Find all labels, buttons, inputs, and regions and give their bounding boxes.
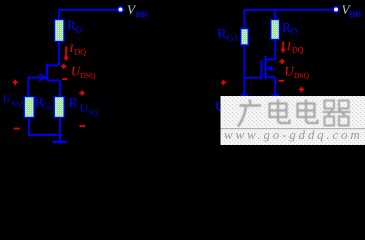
watermark box — [221, 96, 365, 145]
wire foot source right — [271, 94, 279, 96]
transistor Q1 channel bar — [46, 64, 48, 80]
svg-text:U: U — [71, 65, 81, 79]
svg-text:SQ: SQ — [88, 108, 98, 117]
svg-text:DD: DD — [350, 10, 362, 19]
label RD left — [67, 18, 83, 36]
label RG1 — [218, 26, 239, 44]
label RG2 — [35, 95, 52, 112]
svg-text:R: R — [69, 95, 78, 110]
svg-text:www.go-gddq.com: www.go-gddq.com — [224, 127, 363, 142]
transistor Q2 gate lead — [245, 77, 261, 79]
current arrow IDQ right — [281, 42, 286, 54]
node VDD right — [333, 7, 339, 13]
svg-text:DSQ: DSQ — [294, 71, 310, 80]
wire foot RG1 — [240, 94, 248, 96]
transistor Q2 gate bar — [261, 60, 263, 79]
minus UDSQ left — [62, 78, 67, 80]
transistor Q1 source lead — [47, 79, 60, 81]
wire: VDD to RD — [58, 10, 60, 20]
current arrow IDQ left — [64, 47, 69, 62]
svg-text:DSQ: DSQ — [81, 71, 97, 80]
minus USQ — [80, 125, 86, 127]
plus UGQ — [13, 80, 18, 85]
transistor Q1 gate arrow — [39, 74, 45, 81]
label IDQ right — [286, 41, 304, 55]
watermark rule — [221, 128, 365, 129]
label V_DD left — [127, 2, 147, 19]
wire: rail down to RG1 — [244, 10, 246, 29]
wire: source down right — [274, 77, 276, 94]
plus UDSQ right — [279, 59, 284, 64]
resistor RG2 — [24, 97, 34, 118]
wire: RG2 to bottom rail — [28, 118, 30, 136]
svg-text:DQ: DQ — [75, 48, 87, 57]
svg-text:DQ: DQ — [292, 46, 304, 55]
svg-text:D: D — [291, 28, 298, 38]
svg-text:U: U — [285, 65, 295, 79]
svg-text:R: R — [218, 26, 227, 41]
resistor R source — [54, 97, 64, 118]
wire: left top rail — [58, 9, 122, 11]
label UGQ — [3, 94, 23, 109]
label USQ — [80, 103, 99, 117]
transistor Q1 gate lead — [28, 77, 45, 79]
watermark char dian1 — [270, 100, 290, 124]
svg-text:DD: DD — [136, 10, 148, 19]
svg-text:G1: G1 — [227, 34, 239, 44]
wire: gate down to RG2 — [28, 77, 30, 97]
transistor Q2 substrate lead — [267, 68, 275, 70]
wire: source down to R — [59, 80, 61, 96]
label UDSQ left — [71, 65, 96, 81]
resistor RD right — [271, 20, 280, 40]
transistor Q2 drain lead — [266, 58, 275, 60]
transistor Q2 source lead — [266, 76, 275, 78]
svg-text:U: U — [3, 94, 12, 106]
transistor Q1 drain lead — [47, 64, 59, 66]
wire: RD to drain — [58, 42, 60, 66]
transistor Q2 substrate arrow — [267, 66, 272, 72]
plus UDSQ left — [61, 64, 66, 69]
watermark char dian2 — [298, 100, 318, 124]
resistor RG1 — [241, 29, 249, 46]
watermark char qi — [323, 101, 351, 126]
minus UGQ — [14, 128, 20, 130]
wire: rail down to RD right — [274, 10, 276, 20]
label UDSQ right — [285, 65, 310, 81]
label IDQ left — [69, 43, 87, 57]
wire: RD right to drain — [274, 40, 276, 61]
wire: bottom rail left — [28, 134, 61, 136]
plus USQ right — [299, 87, 304, 92]
label RD right — [282, 20, 298, 38]
svg-text:GQ: GQ — [12, 99, 23, 108]
ground left — [53, 141, 67, 144]
wire: right top rail — [244, 9, 337, 11]
resistor RD left — [55, 20, 65, 42]
svg-text:G2: G2 — [42, 101, 52, 111]
label V_DD right — [342, 2, 362, 19]
plus USQ — [79, 90, 84, 95]
minus UDSQ right — [279, 80, 284, 82]
svg-text:D: D — [76, 26, 83, 36]
wire: RG1 down — [244, 45, 246, 95]
wire: R to ground — [59, 118, 61, 142]
partial label U right (behind watermark) — [217, 102, 220, 111]
watermark char guang — [238, 100, 261, 127]
node VDD left — [118, 7, 124, 13]
transistor Q2 channel bar — [265, 56, 267, 80]
plus UGQ right — [221, 80, 226, 85]
